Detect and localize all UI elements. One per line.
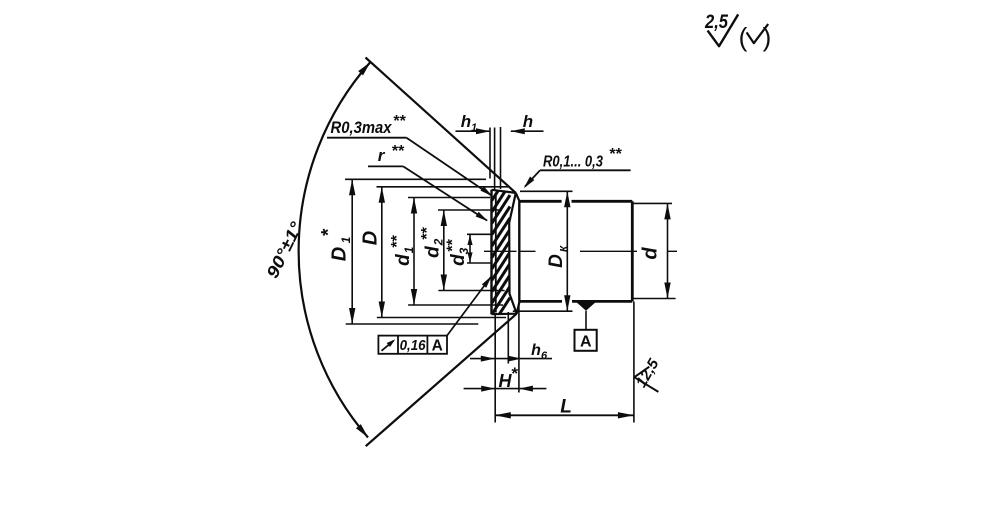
frame divider 2 xyxy=(426,336,428,354)
extension line L right xyxy=(633,302,635,423)
svg-text:**: ** xyxy=(609,146,622,163)
head bottom edge xyxy=(492,313,517,316)
arrowhead H left xyxy=(481,386,495,392)
svg-text:1: 1 xyxy=(471,122,477,134)
svg-text:A: A xyxy=(432,338,443,355)
svg-text:R0,3max: R0,3max xyxy=(331,118,393,137)
dimension line h1 xyxy=(456,130,491,132)
dimension line d3 xyxy=(469,234,471,263)
svg-text:**: ** xyxy=(389,235,406,248)
arrowhead h xyxy=(511,128,525,134)
frame divider 1 xyxy=(397,336,399,354)
extension line body plane down xyxy=(518,302,520,393)
extension line D bottom xyxy=(377,317,506,319)
extension line inner face xyxy=(500,127,502,189)
leader arrowhead R0,3max xyxy=(480,186,492,196)
extension line D1 bottom xyxy=(346,323,479,325)
svg-text:0,16: 0,16 xyxy=(400,338,427,354)
extension line d1 top xyxy=(408,197,490,199)
leader arrowhead R0,1...0,3 xyxy=(524,177,535,189)
arrowhead d top xyxy=(664,203,670,219)
extension line d2 bottom xyxy=(438,290,504,292)
arrowhead D bottom xyxy=(379,302,385,318)
arrowhead d2 bottom xyxy=(441,275,447,291)
arrowhead d3 top xyxy=(467,235,472,245)
extension line compensator peak xyxy=(489,128,491,179)
extension line h6 inner xyxy=(507,312,509,364)
arrowhead d3 bottom xyxy=(467,252,472,262)
dimension line h xyxy=(511,130,544,132)
svg-text:L: L xyxy=(560,397,572,418)
svg-text:к: к xyxy=(556,245,570,252)
head face line xyxy=(490,190,492,315)
leader R0,1...0,3 xyxy=(525,170,540,186)
datum A box xyxy=(575,330,597,351)
svg-text:R0,1... 0,3: R0,1... 0,3 xyxy=(543,154,603,171)
arrowhead L right xyxy=(618,412,634,418)
arrowhead D top xyxy=(379,187,385,203)
extension line d bottom xyxy=(633,298,676,300)
dimension line d2 xyxy=(443,210,445,291)
extension line d1 bottom xyxy=(408,304,503,306)
lower cone extension line xyxy=(366,314,517,447)
svg-text:2,5: 2,5 xyxy=(704,12,728,33)
arrowhead D1 bottom xyxy=(349,308,355,324)
arrowhead Dk top xyxy=(564,191,570,207)
arrowhead d bottom xyxy=(664,283,670,299)
svg-text:D: D xyxy=(329,247,351,261)
extension line Dk top xyxy=(520,190,573,192)
svg-text:6: 6 xyxy=(541,350,548,362)
head inner boundary xyxy=(509,193,517,314)
arrowhead h6 left xyxy=(481,356,495,362)
roughness tick long stroke xyxy=(634,377,658,392)
svg-text:A: A xyxy=(580,334,592,351)
svg-text:**: ** xyxy=(419,227,436,240)
leader R0,3max xyxy=(407,138,492,196)
arc arrowhead top xyxy=(358,62,370,75)
extension line d3 top xyxy=(467,233,493,235)
body top edge right part xyxy=(572,200,633,203)
dimension line d xyxy=(667,203,669,298)
arrowhead d1 bottom xyxy=(411,289,417,305)
arrowhead D1 top xyxy=(349,179,355,195)
body right edge xyxy=(631,201,634,301)
svg-text:**: ** xyxy=(391,143,404,160)
dimension line H xyxy=(464,388,547,390)
arrowhead H right xyxy=(519,386,533,392)
extension line face plane down xyxy=(494,315,496,423)
datum A triangle xyxy=(576,301,597,310)
arrowhead h1 xyxy=(476,128,490,134)
svg-text:d: d xyxy=(393,254,414,266)
fillet top head-to-body xyxy=(516,193,520,201)
svg-text:1: 1 xyxy=(339,236,353,243)
body bottom edge left part xyxy=(519,300,562,303)
head top edge xyxy=(492,190,516,193)
leader arrowhead r xyxy=(476,212,488,221)
parenthesis checkmark xyxy=(747,24,769,43)
svg-text:): ) xyxy=(763,22,772,52)
roughness tick short stroke xyxy=(634,367,649,378)
arc arrowhead bottom xyxy=(356,424,368,438)
extension line d3 bottom xyxy=(467,262,493,264)
svg-text:(: ( xyxy=(739,22,748,52)
dimension line D1 xyxy=(351,179,353,324)
dimension line D xyxy=(381,187,383,318)
head hatching xyxy=(492,172,510,200)
svg-text:**: ** xyxy=(393,113,406,130)
svg-text:d: d xyxy=(423,246,444,258)
feature control frame xyxy=(378,336,447,354)
dimension line d1 xyxy=(413,198,415,306)
arrowhead L left xyxy=(495,412,511,418)
svg-text:D: D xyxy=(546,254,567,268)
extension line head face xyxy=(494,128,496,191)
svg-text:h: h xyxy=(523,112,533,131)
slope symbol arrowhead xyxy=(387,339,396,347)
underline of r xyxy=(368,165,403,167)
dimension line h6 xyxy=(470,358,552,360)
body top edge left part xyxy=(519,200,561,203)
svg-text:D: D xyxy=(360,231,382,245)
arrowhead d1 top xyxy=(411,198,417,214)
arrowhead Dk bottom xyxy=(564,295,570,311)
body bottom edge right part xyxy=(572,300,632,303)
body left edge xyxy=(518,201,520,301)
fillet bottom head-to-body xyxy=(517,301,520,313)
leader r xyxy=(403,166,487,220)
svg-text:h: h xyxy=(531,342,541,359)
upper cone extension line xyxy=(366,58,516,193)
underline of R0,3max xyxy=(327,137,407,139)
extension line Dk bottom xyxy=(513,310,573,312)
arrowhead h6 right xyxy=(508,356,522,362)
svg-text:**: ** xyxy=(445,239,462,252)
slope symbol line xyxy=(382,341,394,351)
extension line d top xyxy=(633,202,672,204)
general roughness checkmark xyxy=(708,14,739,46)
svg-text:h: h xyxy=(461,112,471,131)
dimension line L xyxy=(495,414,634,416)
arrowhead d2 top xyxy=(441,210,447,226)
extension line d2 top xyxy=(438,209,502,211)
frame leader xyxy=(447,277,491,336)
dimension line Dk xyxy=(566,191,568,311)
center line xyxy=(484,250,517,252)
frame leader arrowhead xyxy=(482,276,492,288)
datum stem xyxy=(585,311,587,330)
extension line D top xyxy=(377,186,509,188)
90 degree cone angle arc xyxy=(299,63,370,438)
svg-text:d: d xyxy=(448,254,469,266)
compensator ring line xyxy=(495,193,497,313)
underline of R0,1...0,3 xyxy=(540,169,631,171)
extension line D1 top xyxy=(345,178,486,180)
svg-text:d: d xyxy=(640,247,662,260)
